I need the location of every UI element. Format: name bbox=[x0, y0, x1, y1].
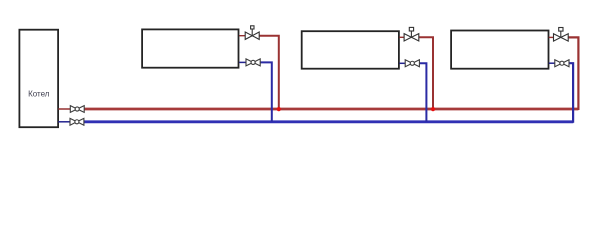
radiator 2 thermostatic valve bbox=[404, 27, 419, 41]
radiator 1 return branch bbox=[261, 62, 272, 121]
blue return main pipe bbox=[84, 120, 573, 123]
junction dot radiator 2 supply bbox=[431, 107, 435, 111]
radiator 2 supply branch bbox=[419, 37, 433, 108]
radiator 1 supply stub bbox=[239, 35, 245, 37]
junction dot radiator 1 supply bbox=[277, 107, 281, 111]
radiator 3 return valve bbox=[555, 60, 569, 67]
radiator 1 thermostatic valve bbox=[245, 26, 259, 40]
radiator 2 return valve bbox=[405, 60, 419, 67]
radiator 3 thermostatic valve bbox=[554, 28, 569, 42]
radiator 3 return stub bbox=[549, 62, 555, 64]
radiator 3 bbox=[451, 31, 548, 69]
red riser to radiator 3 bbox=[568, 37, 578, 110]
radiator 1 return stub bbox=[239, 61, 246, 63]
boiler blue outlet stub bbox=[58, 121, 69, 123]
boiler valve on supply bbox=[70, 106, 84, 113]
blue riser to radiator 3 bbox=[569, 63, 573, 123]
svg-text:Котел: Котел bbox=[28, 90, 50, 99]
radiator 1 return valve bbox=[246, 59, 260, 66]
boiler valve on return bbox=[70, 118, 84, 125]
radiator 2 return branch bbox=[420, 63, 427, 122]
boiler bbox=[19, 30, 58, 128]
radiator 1 bbox=[142, 29, 238, 67]
radiator 1 supply branch bbox=[259, 36, 279, 109]
radiator 3 supply stub bbox=[549, 36, 554, 38]
radiator 2 bbox=[302, 31, 399, 68]
boiler red outlet stub bbox=[58, 108, 70, 110]
radiator 2 supply stub bbox=[399, 36, 404, 38]
red supply main pipe bbox=[85, 108, 579, 111]
radiator 2 return stub bbox=[399, 62, 405, 64]
